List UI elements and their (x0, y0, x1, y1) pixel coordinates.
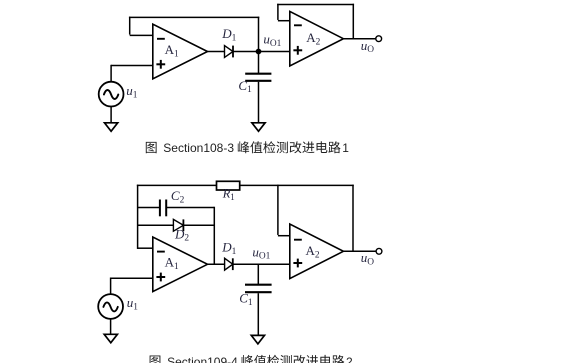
wire node to C1 (bottom) (257, 264, 259, 284)
source u1 (top circuit) (99, 82, 124, 107)
wire A1 output to D1 (208, 51, 225, 53)
caption 2: 值 (254, 355, 266, 363)
caption 1: 改 (290, 141, 302, 153)
diode D1 (225, 46, 234, 58)
caption 2: 电 (320, 355, 331, 363)
capacitor C1 (bottom) (245, 284, 272, 286)
wire A1 inverting input (bottom) (138, 247, 153, 249)
svg-text:uO1: uO1 (263, 32, 281, 49)
op-amp A2 triangle (290, 224, 344, 279)
svg-text:D2: D2 (174, 226, 189, 243)
svg-text:uO1: uO1 (252, 244, 270, 261)
caption 2: 图 (150, 355, 161, 363)
feedback A2 left vertical (bottom) (277, 185, 279, 235)
C2 branch: wire to right vertical (166, 207, 214, 209)
feedback wire A2: left vertical (277, 4, 279, 20)
svg-text:D1: D1 (221, 26, 236, 43)
top feedback wire left segment to R1 (137, 184, 217, 186)
right vertical C2/D2 to output wire (213, 207, 215, 264)
svg-text:uO: uO (361, 38, 375, 55)
wire A1 output to D1 (bottom) (208, 263, 225, 265)
caption 1: 检 (263, 141, 275, 153)
op-amp A1 plus sign (156, 276, 165, 278)
wire source to ground (110, 107, 112, 124)
op-amp A2 plus sign (293, 49, 302, 51)
svg-text:u1: u1 (126, 83, 138, 100)
resistor R1 box (217, 181, 240, 190)
op-amp A1 triangle (153, 237, 208, 292)
svg-text:Section108-3: Section108-3 (163, 141, 234, 155)
wire A2 inverting input (278, 20, 290, 22)
capacitor C2 (159, 200, 161, 217)
caption 2: 峰 (242, 355, 254, 363)
caption 2: 检 (267, 355, 279, 363)
op-amp A2 minus sign (294, 239, 302, 241)
svg-text:uO: uO (361, 250, 375, 267)
wire node to C1 (258, 52, 260, 74)
op-amp A2 triangle (290, 11, 344, 66)
feedback A2 right vertical (bottom) (352, 185, 354, 252)
svg-text:C2: C2 (171, 188, 185, 205)
feedback wire A2: right vertical to output (352, 4, 354, 39)
capacitor C1 (top) (245, 73, 271, 75)
caption 2: 测 (280, 355, 292, 363)
svg-text:2: 2 (346, 355, 353, 363)
output terminal circle (top) (376, 36, 382, 42)
caption 1: 路 (328, 141, 340, 153)
op-amp A1 triangle (153, 24, 208, 79)
svg-text:Section109-4: Section109-4 (167, 355, 238, 363)
diode D1 (225, 258, 233, 270)
caption 1: 进 (302, 142, 314, 154)
wire C1 to ground (258, 82, 260, 124)
caption 1: 测 (276, 141, 288, 153)
diode D2 (173, 219, 183, 231)
caption 1: 峰 (238, 141, 250, 153)
op-amp A1 minus sign (157, 38, 165, 40)
feedback wire A1: left vertical (129, 17, 131, 35)
ground under u1 (bottom) (104, 334, 117, 343)
C2 branch: wire from left vertical (138, 207, 160, 209)
caption 1: 图 (146, 142, 157, 153)
wire C1 to ground (bottom) (257, 293, 259, 336)
ground under C1 (bottom) (251, 335, 264, 344)
wire source to plus input vertical (110, 65, 112, 82)
caption 2: 进 (306, 355, 318, 363)
wire A2 output to terminal (bottom) (343, 250, 376, 252)
wire source vertical (bottom) (110, 278, 112, 295)
D2 branch: wire from left vertical (138, 224, 174, 226)
caption 2: 路 (332, 355, 344, 363)
feedback left vertical (bottom) (137, 185, 139, 249)
wire A2 output to terminal (343, 38, 375, 40)
wire source to ground (bottom) (110, 319, 112, 335)
feedback wire A1: top horizontal (129, 16, 259, 18)
feedback wire A1: right vertical down to node (258, 17, 260, 52)
op-amp A2 plus sign (293, 262, 302, 264)
wire A1 noninverting input from source (111, 65, 153, 67)
source u1 (bottom circuit) (98, 294, 123, 319)
wire A1 noninverting input from source (bottom) (111, 277, 153, 279)
node uO1 junction dot (top) (256, 49, 262, 55)
top feedback wire right segment from R1 (240, 184, 354, 186)
D2 branch: wire to right vertical (183, 224, 214, 226)
ground under u1 (top) (105, 123, 118, 132)
output terminal circle (bottom) (376, 248, 382, 254)
ground under C1 (top) (252, 123, 265, 132)
feedback wire A2: top horizontal (277, 4, 354, 6)
op-amp A2 minus sign (294, 24, 302, 26)
op-amp A1 minus sign (157, 251, 165, 253)
caption 1: 值 (250, 141, 262, 153)
wire A2 inverting input (bottom) (278, 235, 290, 237)
wire D1 to A2 plus input (233, 51, 290, 53)
svg-text:u1: u1 (127, 295, 139, 312)
caption 1: 电 (317, 141, 328, 153)
caption 2: 改 (293, 355, 305, 363)
svg-text:D1: D1 (221, 240, 236, 257)
svg-text:1: 1 (342, 141, 349, 155)
op-amp A1 plus sign (156, 63, 165, 65)
wire A1 inverting input (130, 34, 153, 36)
wire D1 to A2 plus input (bottom) (233, 263, 290, 265)
